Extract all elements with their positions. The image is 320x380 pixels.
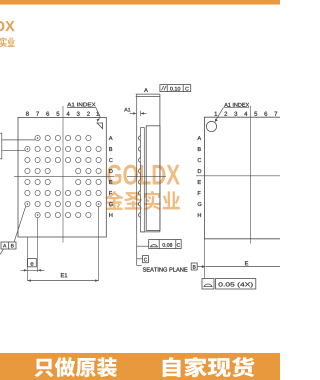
left view ball row B [25,146,101,151]
datum C box [143,256,149,263]
left view column labels 8..1 [26,112,29,116]
left view package outline [18,117,106,237]
coplanarity frame dome 0.08 C [149,240,182,249]
left view ball row G [25,201,101,206]
leader from ball G8 to datum box [14,206,26,242]
top view outline [204,117,280,239]
A1 standoff label [124,108,130,112]
package bottom edge (side view) [141,231,160,233]
E1 dimension line [27,280,98,282]
A1 INDEX label (left view) [67,103,95,107]
SEATING PLANE text [143,267,188,271]
small leader below A|B box [0,249,4,255]
top view row labels A..H [197,136,201,140]
bottom orange bar [0,353,280,380]
side view top edge [136,96,160,98]
top view horizontal centerline [196,175,280,177]
A dimension line (side view top) [136,93,160,95]
parallelism feature control frame // 0.10 C [160,85,191,92]
A1 INDEX leader (top view) [216,108,223,120]
left view ball row A [35,135,91,140]
bottom bar text 只做原装 [34,357,117,377]
leader to ball B8 [2,149,25,151]
left view ball row E [25,179,101,184]
top view left extension line [203,239,205,279]
A1 leader arrow left [130,112,134,114]
substrate layer (side view) [141,128,145,232]
seating plane line down to callout [137,94,142,265]
E1 extension line (from ball G1) [98,207,100,281]
datum reference frame A|B [1,242,16,249]
side view horizontal centerline [127,176,166,178]
watermark center GOLDX [107,165,179,185]
left view vertical centerline [62,106,64,243]
top view column labels 1..7 [215,112,218,116]
left view ball row F [25,190,101,195]
datum target dots on balls A7 B8 G8 G1 H7 [27,137,100,216]
bottom bar text 自家现货 [163,357,255,377]
watermark top-left chinese (cut off) [0,37,15,47]
E dimension line [206,266,280,268]
A1 INDEX leader (left view) [96,108,100,121]
A1 INDEX label (top view) [224,103,249,107]
mold body (side view) [146,126,160,231]
left view ball row C [25,157,101,162]
watermark top-left GOLDX (cut off) [0,21,15,32]
top view vertical centerline [249,106,251,244]
datum B box [191,263,197,270]
E1 label [61,273,67,277]
e dimension line with arrows [21,269,45,271]
seating plane coplanarity frame connector [137,245,149,247]
A1 corner chamfer triangle [97,123,103,129]
top orange bar [0,0,280,5]
A dimension label [144,88,148,92]
left view horizontal centerline [14,176,115,178]
watermark center chinese [105,191,180,210]
side view right edge [159,94,161,232]
leader to ball A7 [2,139,35,141]
datum B leader to extension line [197,266,202,268]
left view row labels A..H [109,136,113,140]
e extension line col7 (from ball H7) [37,218,39,272]
coplanarity frame dome box (top view) [202,279,256,290]
A1 index circle [206,121,216,131]
solder ball bumps (side view) [139,136,141,218]
A1 right extension + arrow [140,111,142,116]
datum C connector [137,258,143,260]
e basic dimension box [28,259,37,267]
cut-off callout box at left edge [0,133,2,159]
e extension line col8 [26,237,28,281]
left view ball row H [35,212,91,217]
left view ball row D [25,168,101,173]
E label [245,261,248,265]
